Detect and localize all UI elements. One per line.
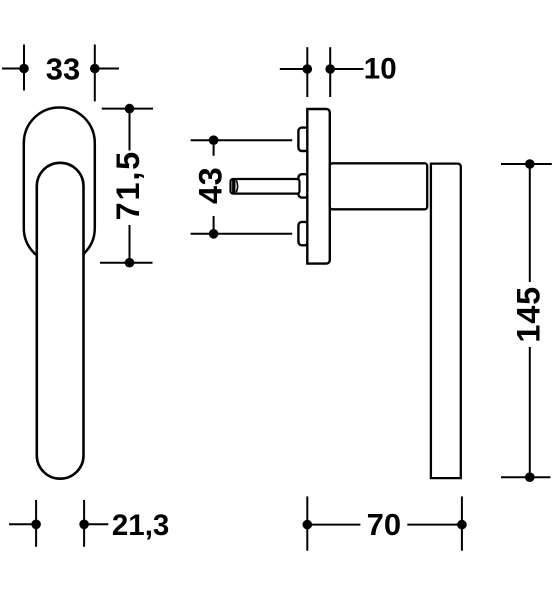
fixing lug middle: [298, 174, 308, 197]
dot top: [125, 104, 135, 114]
extension line left: [35, 500, 37, 547]
dim stub left: [2, 68, 24, 70]
svg-text:145: 145: [511, 286, 547, 343]
dot right: [325, 64, 335, 74]
extension line bottom: [100, 262, 153, 264]
extension line top: [102, 108, 153, 110]
extension line bottom: [501, 476, 550, 478]
handle neck (horizontal): [330, 163, 427, 209]
dim line top left: [191, 139, 214, 141]
dim stub left: [280, 68, 308, 70]
dim line lower segment: [529, 347, 531, 477]
svg-text:10: 10: [364, 53, 397, 86]
svg-text:33: 33: [46, 52, 80, 87]
svg-text:21,3: 21,3: [112, 509, 169, 542]
dot right: [90, 64, 100, 74]
extension line right: [94, 45, 96, 102]
extension line top: [501, 163, 552, 165]
extension line left: [306, 47, 308, 97]
dim stub right: [95, 68, 119, 70]
extension line right: [329, 47, 331, 97]
dim line top right: [214, 139, 293, 141]
dim line upper segment: [129, 109, 131, 151]
svg-text:71,5: 71,5: [110, 150, 146, 220]
dim stub right: [330, 68, 363, 70]
dot left: [303, 64, 313, 74]
extension line left: [306, 496, 308, 550]
spindle chamfer arc: [236, 180, 237, 192]
dim vertical lower stub: [213, 216, 215, 234]
svg-text:43: 43: [193, 167, 229, 204]
dim stub right: [84, 523, 108, 525]
dim vertical upper stub: [213, 140, 215, 156]
dot left: [31, 520, 41, 530]
dot bottom: [125, 258, 135, 268]
handle lever front (stadium, covers lower rosette arc): [37, 163, 84, 479]
svg-text:70: 70: [367, 507, 401, 542]
rosette plate side view: [307, 109, 330, 264]
fixing lug top: [298, 128, 308, 151]
dim line left segment: [307, 524, 360, 526]
dim line bottom left: [191, 233, 214, 235]
handle bar (vertical lever): [431, 164, 461, 479]
dot top: [209, 135, 219, 145]
dot right: [79, 520, 89, 530]
dot right: [457, 520, 467, 530]
extension line left: [23, 45, 25, 91]
dim line upper segment: [529, 164, 531, 282]
spindle end cap (dark tip): [232, 180, 235, 193]
dot top: [525, 159, 535, 169]
rosette oval (stadium): [24, 108, 95, 264]
fixing lug bottom: [298, 222, 308, 245]
spindle square rod: [231, 179, 300, 194]
dim line right segment: [407, 524, 462, 526]
dim stub left: [9, 523, 36, 525]
dot bottom: [209, 229, 219, 239]
dot left: [19, 64, 29, 74]
dot bottom: [525, 472, 535, 482]
dim line lower segment: [129, 225, 131, 263]
extension line right: [461, 496, 463, 550]
extension line right: [83, 500, 85, 547]
dot left: [303, 520, 313, 530]
dim line bottom right: [214, 233, 293, 235]
